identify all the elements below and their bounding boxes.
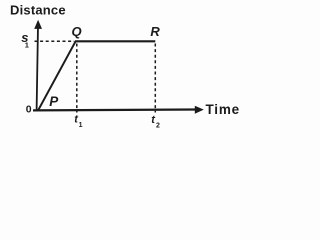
x-axis xyxy=(33,108,196,111)
svg-text:1: 1 xyxy=(79,122,83,129)
svg-text:Q: Q xyxy=(72,24,82,39)
x-axis arrowhead xyxy=(195,106,204,114)
svg-text:1: 1 xyxy=(25,41,29,50)
diagonal line O to Q xyxy=(38,41,75,110)
dashed vertical Q to t1 xyxy=(76,44,78,113)
y-axis xyxy=(37,26,38,111)
dashed level line s1 to Q xyxy=(35,40,75,42)
svg-text:2: 2 xyxy=(156,122,160,129)
plateau line Q to R xyxy=(75,40,155,42)
y-axis arrowhead xyxy=(34,20,42,29)
svg-text:P: P xyxy=(49,94,59,109)
svg-text:0: 0 xyxy=(26,103,32,115)
svg-text:R: R xyxy=(150,24,160,39)
dashed vertical R to t2 xyxy=(154,44,156,113)
svg-text:Distance: Distance xyxy=(10,2,66,17)
svg-text:Time: Time xyxy=(206,102,240,117)
